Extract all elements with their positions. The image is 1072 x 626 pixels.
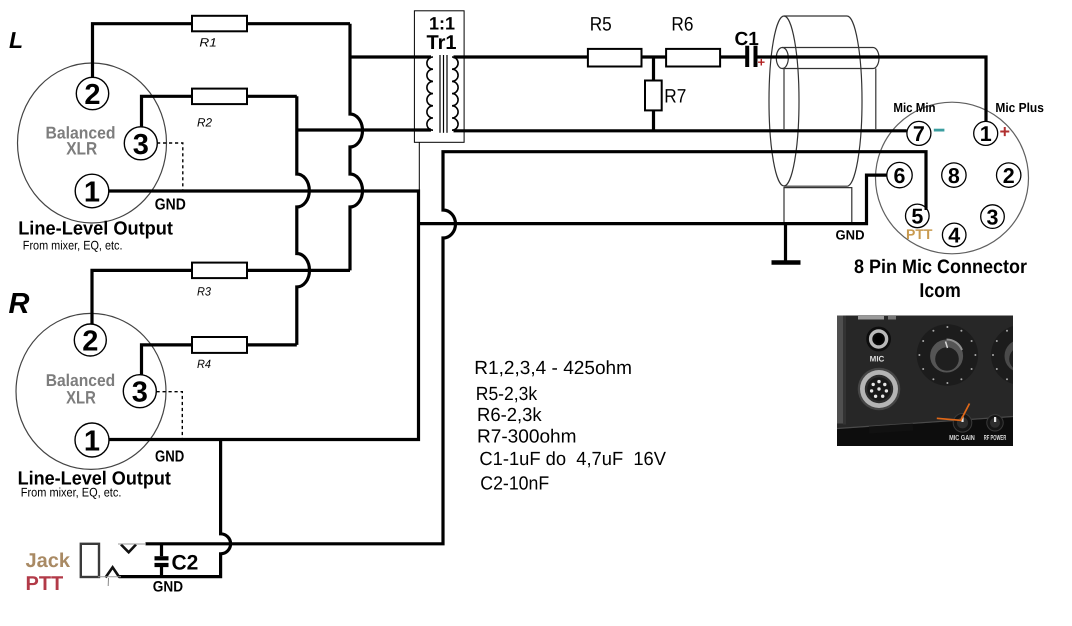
svg-text:L: L [9,27,23,53]
svg-text:Mic Plus: Mic Plus [995,100,1044,115]
svg-text:2: 2 [1003,164,1015,188]
svg-text:C1: C1 [735,29,760,50]
svg-text:R6-2,3k: R6-2,3k [477,405,542,426]
svg-text:PTT: PTT [26,573,64,595]
svg-text:R7-300ohm: R7-300ohm [477,426,577,447]
svg-text:R5: R5 [590,14,612,36]
svg-text:3: 3 [987,205,999,229]
svg-text:2: 2 [82,326,98,358]
svg-text:Line-Level Output: Line-Level Output [18,218,173,239]
svg-text:Icom: Icom [919,280,960,302]
svg-text:R1: R1 [199,36,216,50]
svg-text:1: 1 [980,122,992,146]
svg-text:Mic Min: Mic Min [893,100,935,115]
svg-text:R7: R7 [664,86,686,108]
svg-text:1: 1 [84,426,100,458]
svg-text:+: + [1000,122,1011,142]
svg-text:MIC GAIN: MIC GAIN [949,433,975,442]
svg-text:3: 3 [133,129,149,161]
svg-text:MIC: MIC [870,355,885,364]
svg-text:R1,2,3,4 - 425ohm: R1,2,3,4 - 425ohm [474,358,632,379]
svg-text:8: 8 [948,164,960,188]
svg-text:PTT: PTT [906,226,933,242]
svg-text:1:1: 1:1 [429,14,455,34]
svg-text:GND: GND [836,227,865,242]
svg-text:R: R [9,288,30,320]
svg-text:C2: C2 [172,552,199,575]
svg-text:2: 2 [84,79,100,111]
svg-text:+: + [758,55,766,70]
svg-text:6: 6 [894,164,906,188]
svg-text:GND: GND [155,196,186,213]
svg-text:3: 3 [132,377,148,409]
svg-text:C1-1uF do 4,7uF 16V: C1-1uF do 4,7uF 16V [479,449,666,470]
svg-text:XLR: XLR [66,388,96,408]
svg-text:R2: R2 [197,116,212,130]
svg-text:1: 1 [84,177,100,209]
svg-text:R5-2,3k: R5-2,3k [476,384,538,405]
svg-text:R6: R6 [671,14,693,36]
svg-text:GND: GND [153,579,183,596]
svg-text:C2-10nF: C2-10nF [480,473,549,494]
svg-text:From mixer, EQ, etc.: From mixer, EQ, etc. [21,485,122,499]
svg-text:RF POWER: RF POWER [984,433,1007,442]
svg-text:R3: R3 [197,285,211,299]
svg-text:GND: GND [155,449,184,466]
svg-text:XLR: XLR [66,139,97,159]
svg-text:7: 7 [913,122,925,146]
svg-text:Jack: Jack [26,550,71,572]
svg-text:Tr1: Tr1 [427,32,457,54]
svg-text:8 Pin Mic Connector: 8 Pin Mic Connector [854,256,1027,278]
svg-text:R4: R4 [197,357,211,371]
svg-text:From mixer, EQ, etc.: From mixer, EQ, etc. [23,238,123,252]
svg-text:4: 4 [948,224,960,248]
